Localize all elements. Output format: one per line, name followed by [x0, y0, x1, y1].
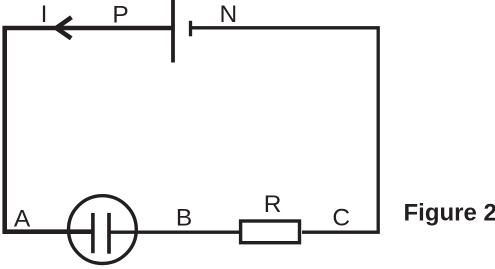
svg-text:A: A — [14, 205, 31, 232]
svg-text:B: B — [176, 205, 192, 232]
svg-text:I: I — [41, 1, 48, 28]
svg-text:C: C — [332, 204, 350, 231]
svg-text:R: R — [264, 191, 282, 218]
svg-text:P: P — [112, 2, 128, 29]
svg-text:N: N — [219, 1, 237, 28]
svg-text:Figure 2: Figure 2 — [404, 200, 495, 227]
